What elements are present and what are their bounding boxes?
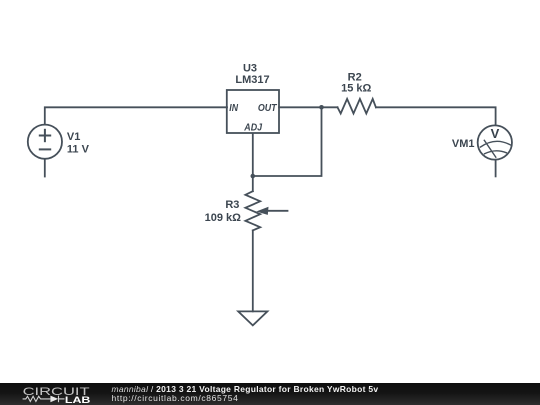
wire U3 ADJ down [252,134,254,177]
svg-text:ADJ: ADJ [243,121,263,133]
V1 label [67,131,90,156]
wire R3 to ground [252,230,254,311]
svg-text:LAB: LAB [65,395,91,405]
R2 label 15 kΩ [341,71,371,94]
node junction at ADJ net [251,174,256,179]
potentiometer R3 [245,191,260,230]
footer url [112,393,239,403]
svg-text:V1: V1 [67,131,80,143]
voltmeter VM1 [478,125,512,159]
voltage source V1 [28,125,62,159]
node junction at OUT net [319,105,324,110]
svg-text:U3: U3 [243,63,257,75]
pin OUT [258,102,278,114]
wire V1 top to U3 IN [45,107,227,124]
CircuitLab logo [0,383,110,405]
svg-text:OUT: OUT [258,102,278,114]
R3 wiper arrow [256,207,287,215]
wire ADJ node to R3 [252,176,254,191]
wire VM1 bottom lead [495,160,497,176]
U3 label [235,63,269,86]
footer title text [112,384,379,394]
R3 label 109 kΩ [205,199,242,224]
regulator IC U3 LM317 body [227,90,279,133]
ground [238,311,267,325]
wire R2 to VM1 [376,107,496,125]
resistor R2 [338,99,376,114]
pin IN [229,102,238,114]
svg-text:109 kΩ: 109 kΩ [205,212,242,224]
wire U3 OUT to R2 [279,106,338,108]
footer bar [0,383,540,405]
pin ADJ [243,121,263,133]
svg-text:15 kΩ: 15 kΩ [341,82,371,94]
svg-text:11 V: 11 V [67,144,90,156]
VM1 label [452,138,475,150]
svg-text:LM317: LM317 [235,74,269,86]
svg-text:IN: IN [229,102,238,114]
svg-text:R3: R3 [225,199,239,211]
wire V1 bottom lead [44,159,46,176]
svg-text:V: V [491,126,500,141]
svg-text:VM1: VM1 [452,138,475,150]
wire feedback ADJ node to OUT net [253,107,322,176]
